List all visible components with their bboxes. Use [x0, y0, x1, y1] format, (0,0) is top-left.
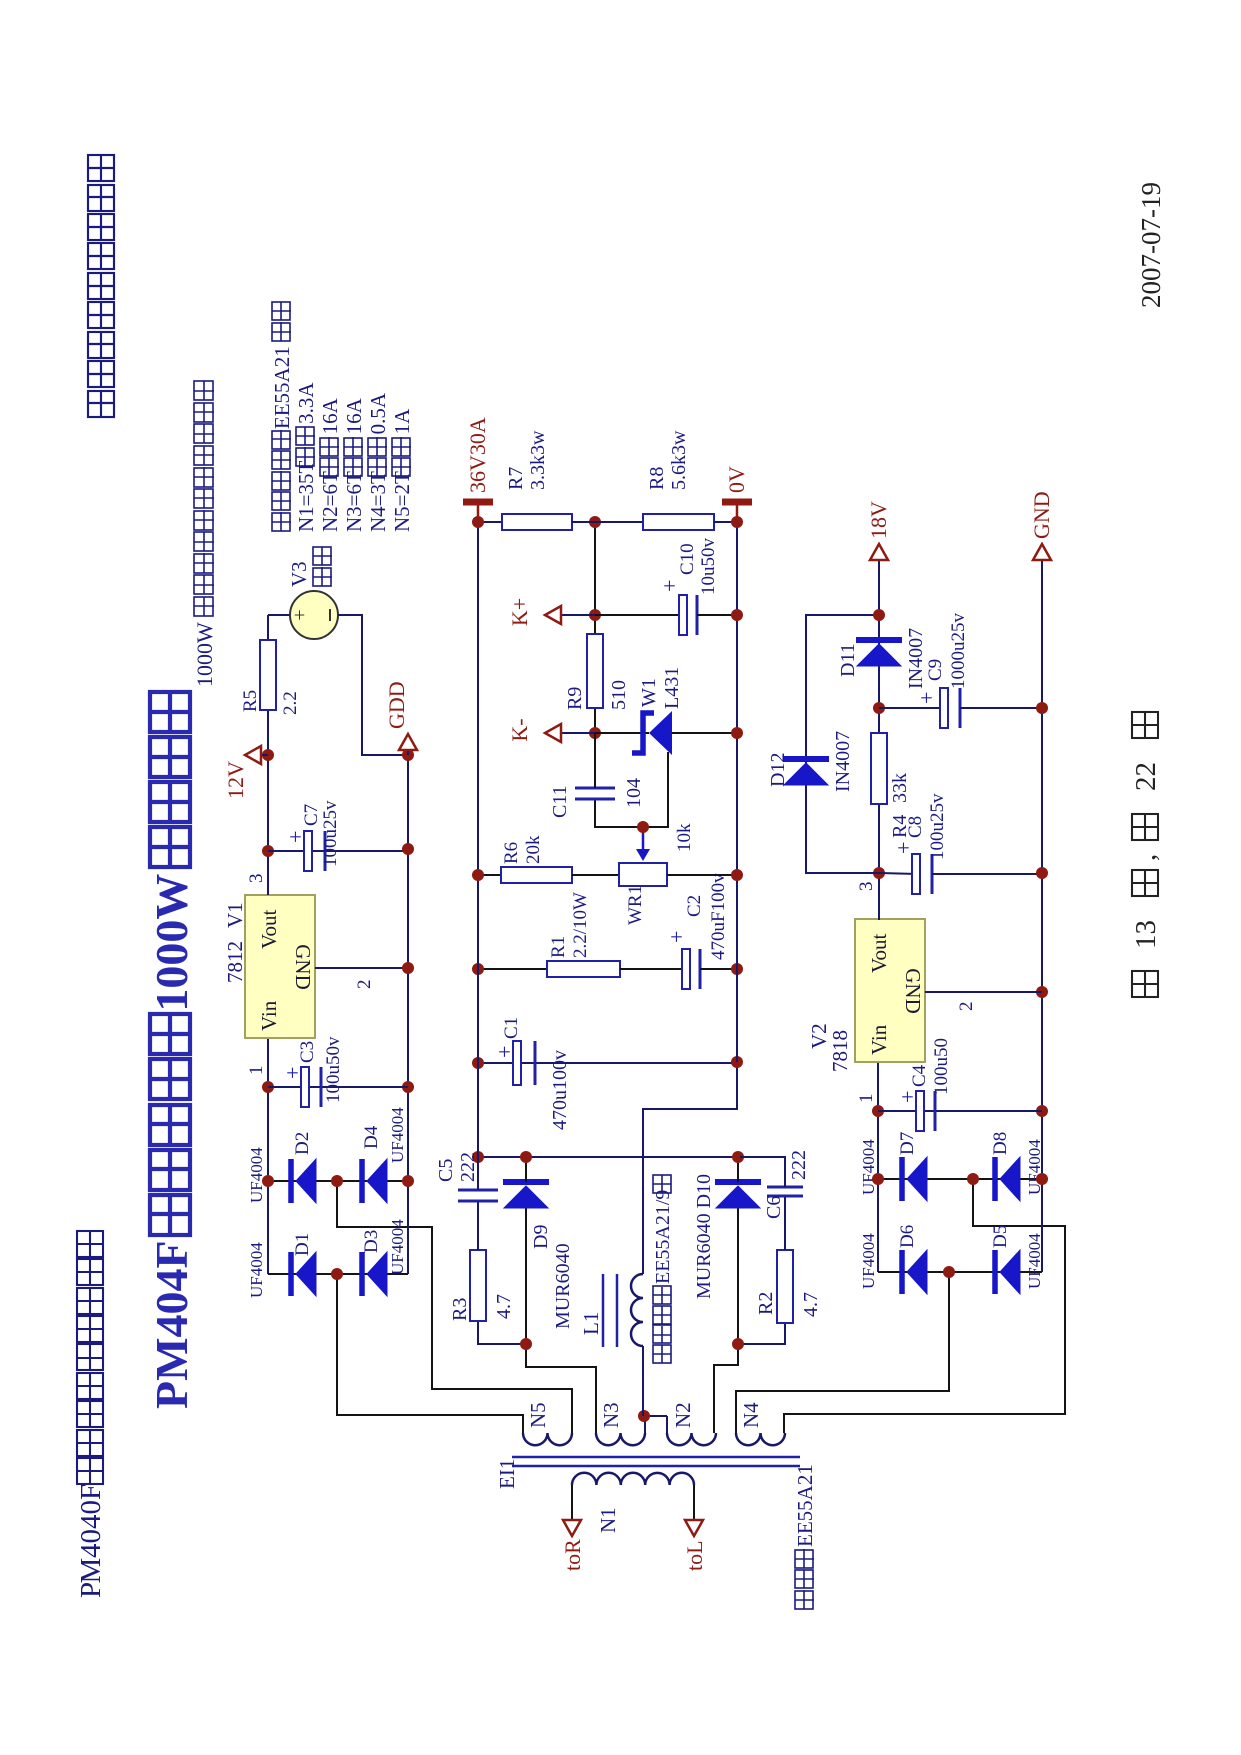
svg-text:510: 510: [608, 680, 630, 710]
snubber R2 C6 branch: [738, 1323, 785, 1344]
svg-text:C11: C11: [549, 785, 571, 818]
svg-text:104: 104: [623, 778, 645, 808]
svg-text:0: 0: [75, 1529, 107, 1544]
svg-text:C2: C2: [684, 895, 705, 917]
svg-text:10k: 10k: [674, 823, 695, 852]
svg-text:UF4004: UF4004: [859, 1139, 878, 1195]
svg-text:+: +: [914, 692, 939, 704]
svg-text:V1: V1: [223, 902, 247, 928]
svg-text:D5: D5: [990, 1225, 1011, 1248]
potentiometer WR1 wiper arrow: [642, 827, 645, 853]
svg-text:GND: GND: [901, 968, 925, 1014]
svg-text:0: 0: [192, 654, 217, 665]
resistor R3: [470, 1250, 486, 1321]
svg-text:16A: 16A: [318, 397, 342, 434]
svg-text:222: 222: [457, 1152, 479, 1182]
snubber R3 C5 branch: [478, 1321, 526, 1344]
svg-text:4.7: 4.7: [493, 1294, 515, 1319]
svg-text:IN4007: IN4007: [905, 628, 927, 689]
svg-text:D9: D9: [530, 1225, 552, 1249]
port 12V: [261, 754, 268, 756]
svg-text:D8: D8: [990, 1132, 1011, 1155]
svg-text:N5=2T: N5=2T: [390, 471, 414, 532]
wire C11 to K- node: [594, 733, 596, 788]
wire center tap link: [644, 1416, 646, 1433]
svg-text:5.6k3w: 5.6k3w: [668, 430, 690, 490]
junction bus D9: [520, 1151, 532, 1163]
wire +36V vertical bus: [478, 1156, 785, 1158]
wire 12V output rail: [267, 615, 269, 895]
port K+: [561, 614, 595, 616]
resistor R6: [478, 874, 501, 876]
svg-text:+: +: [283, 831, 308, 843]
wire R3 to C5: [477, 1201, 479, 1250]
junction C8 bottom: [1036, 867, 1048, 879]
svg-text:R7: R7: [505, 467, 527, 490]
svg-text:+: +: [664, 931, 689, 943]
svg-text:10u50v: 10u50v: [698, 538, 719, 596]
svg-text:K+: K+: [507, 598, 532, 626]
wire D7/D8 chain: [878, 1178, 1042, 1180]
svg-text:+: +: [891, 842, 916, 854]
svg-text:2: 2: [354, 980, 375, 990]
wire GND rail of 7812 section: [407, 755, 409, 1274]
svg-text:toR: toR: [560, 1539, 585, 1571]
winding N4: [736, 1433, 785, 1445]
svg-text:222: 222: [788, 1150, 810, 1180]
junction C10 bottom: [731, 609, 743, 621]
junction C1 bottom / L1: [731, 1056, 743, 1068]
svg-text:N1: N1: [596, 1507, 620, 1533]
page number: [1132, 971, 1158, 997]
wire D6/D5 chain: [878, 1271, 1042, 1273]
junction Vin rail D7: [872, 1173, 884, 1185]
capacitor C4: [878, 1110, 1042, 1112]
junction D2-D4 mid: [331, 1175, 343, 1187]
capacitor C9: [879, 707, 946, 709]
diode D11: [856, 637, 902, 643]
svg-text:R2: R2: [755, 1292, 777, 1315]
svg-text:2.2/10W: 2.2/10W: [570, 892, 591, 958]
svg-text:1000W: 1000W: [146, 874, 197, 1012]
capacitor C8: [879, 873, 918, 874]
junction D6-D5 mid: [943, 1266, 955, 1278]
junction GND V2 pin: [1036, 986, 1048, 998]
resistor R9: [587, 634, 603, 708]
svg-text:3.3A: 3.3A: [294, 382, 318, 424]
wire C5 to bus: [477, 1157, 479, 1190]
svg-text:2: 2: [956, 1002, 977, 1012]
svg-text:C9: C9: [925, 659, 946, 681]
svg-text:4.7: 4.7: [800, 1292, 822, 1317]
capacitor C5: [458, 1200, 498, 1203]
svg-text:0: 0: [75, 1500, 107, 1515]
wire V2 Vin rail: [877, 1062, 879, 1272]
wire N4 bottom to D7/D8 midpoint: [784, 1179, 1065, 1433]
svg-text:N4: N4: [739, 1402, 763, 1428]
svg-text:EE55A21: EE55A21: [270, 346, 294, 429]
port toR: [563, 1520, 581, 1536]
svg-text:C1: C1: [501, 1017, 522, 1039]
svg-text:GND: GND: [1029, 491, 1054, 539]
junction bus top: [472, 1151, 484, 1163]
svg-text:N1=35T: N1=35T: [294, 460, 318, 532]
svg-text:EE55A21/9: EE55A21/9: [652, 1190, 674, 1284]
svg-text:1000u25v: 1000u25v: [948, 613, 969, 690]
svg-text:C7: C7: [301, 804, 322, 826]
junction rail D2 top: [262, 1175, 274, 1187]
winding N1 (primary): [572, 1473, 694, 1485]
svg-text:D12: D12: [767, 753, 789, 787]
junction R1 top: [472, 963, 484, 975]
wire V2 Vout rail: [878, 561, 880, 920]
svg-text:W1: W1: [638, 678, 660, 707]
svg-text:R3: R3: [449, 1298, 471, 1321]
svg-text:4: 4: [75, 1543, 107, 1558]
transformer type label: [795, 1590, 814, 1609]
capacitor C11: [575, 798, 615, 801]
wire R1 to C2: [620, 968, 688, 970]
svg-text:3: 3: [246, 874, 267, 884]
port 0V: [736, 502, 739, 522]
fan V3 circle: [290, 591, 338, 639]
svg-text:R1: R1: [548, 936, 569, 958]
svg-text:D2: D2: [292, 1132, 313, 1155]
svg-text:D11: D11: [837, 643, 859, 677]
junction GND D8: [1036, 1173, 1048, 1185]
winding N5: [523, 1433, 572, 1445]
svg-text:WR1: WR1: [625, 885, 646, 925]
svg-text:12V: 12V: [223, 761, 248, 799]
junction bus D10: [732, 1151, 744, 1163]
capacitor C3: [268, 1086, 408, 1088]
junction R4 D11 C9: [873, 702, 885, 714]
svg-text:D1: D1: [292, 1233, 313, 1256]
svg-text:470u100v: 470u100v: [549, 1050, 571, 1130]
wire W1 ref path: [595, 752, 668, 827]
junction W1 anode: [731, 727, 743, 739]
junction wiper node: [637, 821, 649, 833]
diode D3: [359, 1252, 365, 1296]
svg-text:1: 1: [246, 1066, 267, 1076]
wire R6 to WR1: [572, 874, 619, 876]
diode D2: [288, 1159, 294, 1203]
svg-text:N3=6T: N3=6T: [342, 471, 366, 532]
capacitor C10: [595, 614, 685, 616]
svg-text:UF4004: UF4004: [859, 1233, 878, 1289]
diode D6: [899, 1250, 905, 1294]
port toL: [685, 1520, 703, 1536]
svg-text:36V30A: 36V30A: [465, 417, 490, 493]
wire N3 top to D9 anode: [526, 1208, 596, 1433]
svg-text:UF4004: UF4004: [388, 1219, 407, 1275]
resistor R1: [478, 968, 547, 970]
svg-text:+: +: [289, 609, 311, 620]
junction Vout C8: [873, 867, 885, 879]
inductor L1: [631, 1274, 643, 1346]
diode D7: [899, 1157, 905, 1201]
capacitor C2: [682, 949, 690, 989]
junction D4 bottom: [402, 1175, 414, 1187]
svg-text:L1: L1: [579, 1312, 603, 1335]
transformer note block: [272, 512, 291, 531]
junction C3 bottom: [402, 1081, 414, 1093]
svg-text:UF4004: UF4004: [247, 1242, 266, 1298]
svg-text:100u25v: 100u25v: [320, 800, 341, 867]
wire 0V rail: [736, 522, 738, 1062]
svg-text:L431: L431: [661, 667, 683, 709]
svg-text:EI1: EI1: [495, 1459, 519, 1489]
diode D10: [715, 1179, 761, 1185]
svg-text:toL: toL: [682, 1540, 707, 1571]
svg-text:GND: GND: [291, 944, 315, 990]
junction 36V port: [472, 516, 484, 528]
wire N2 bottom to D10 anode: [714, 1208, 738, 1433]
svg-text:2.2: 2.2: [280, 691, 301, 715]
wire N1 bottom to toL: [693, 1485, 695, 1519]
svg-text:UF4004: UF4004: [247, 1147, 266, 1203]
potentiometer WR1: [619, 863, 667, 886]
svg-text:PM404F: PM404F: [146, 1240, 197, 1409]
wire D10 cathode to bus: [737, 1157, 739, 1182]
svg-text:EE55A21: EE55A21: [793, 1464, 817, 1547]
wire N5 bottom to D2/D4 midpoint: [337, 1181, 572, 1433]
wire R7 to R8: [572, 521, 643, 523]
svg-text:,: ,: [1130, 854, 1162, 861]
svg-text:C6: C6: [763, 1196, 785, 1219]
svg-text:470uF100v: 470uF100v: [708, 873, 729, 960]
svg-text:IN4007: IN4007: [832, 731, 854, 792]
wire C6 to bus: [740, 1157, 785, 1187]
svg-text:D4: D4: [361, 1125, 382, 1149]
svg-text:13: 13: [1130, 920, 1162, 949]
svg-text:D3: D3: [361, 1230, 382, 1253]
diode D12 branch: [806, 615, 879, 873]
junction snubber D9 tap: [520, 1338, 532, 1350]
svg-text:K-: K-: [507, 718, 532, 741]
svg-text:33k: 33k: [889, 773, 911, 803]
svg-text:W: W: [192, 622, 217, 643]
wire +36V rail: [477, 522, 479, 1157]
svg-text:M: M: [75, 1558, 107, 1584]
wire V1 GND pin: [315, 967, 408, 969]
svg-text:MUR6040 D10: MUR6040 D10: [693, 1174, 715, 1299]
svg-text:0: 0: [192, 665, 217, 676]
svg-text:0: 0: [192, 643, 217, 654]
diode D8: [992, 1157, 998, 1201]
svg-text:1: 1: [856, 1094, 877, 1104]
junction C7 top: [262, 845, 274, 857]
resistor R4: [871, 733, 887, 804]
wire R5 to fan V3: [268, 614, 290, 616]
diode D9: [503, 1179, 549, 1185]
wire N5 top to D1/D3 midpoint: [337, 1274, 523, 1433]
svg-text:R4: R4: [889, 815, 911, 838]
junction K- node: [589, 727, 601, 739]
svg-text:100u50: 100u50: [931, 1038, 952, 1095]
junction WR1 bottom: [731, 869, 743, 881]
junction 12V port: [262, 749, 274, 761]
diode D5: [992, 1250, 998, 1294]
svg-text:D7: D7: [897, 1132, 918, 1155]
port GND: [1033, 544, 1051, 560]
svg-text:0.5A: 0.5A: [366, 392, 390, 434]
svg-text:C3: C3: [297, 1041, 318, 1063]
wire WR1 to 0V: [667, 874, 737, 876]
junction Vin rail C4: [872, 1105, 884, 1117]
svg-text:100u25v: 100u25v: [927, 793, 948, 860]
svg-text:F: F: [75, 1484, 107, 1500]
capacitor C1: [478, 1062, 737, 1064]
junction rail C3 top: [262, 1081, 274, 1093]
wire K mid rail: [594, 522, 596, 733]
svg-text:Vout: Vout: [257, 910, 281, 949]
junction K+ node: [589, 609, 601, 621]
junction V1 GND: [402, 962, 414, 974]
svg-text:C5: C5: [435, 1159, 457, 1182]
svg-text:N3: N3: [599, 1402, 623, 1428]
svg-text:MUR6040: MUR6040: [552, 1243, 574, 1329]
junction C1 top: [472, 1057, 484, 1069]
svg-text:7812: 7812: [223, 941, 247, 983]
winding N3: [596, 1433, 645, 1445]
wire R2 to C6: [784, 1196, 786, 1250]
inductor L1 core: [602, 1274, 605, 1347]
svg-text:Vin: Vin: [257, 1000, 281, 1031]
svg-text:R9: R9: [564, 687, 586, 710]
wire center tap to L1: [642, 1346, 644, 1416]
resistor R5: [260, 640, 276, 710]
svg-text:3.3k3w: 3.3k3w: [527, 430, 549, 490]
svg-text:UF4004: UF4004: [388, 1107, 407, 1163]
svg-text:18V: 18V: [866, 501, 891, 539]
svg-text:GDD: GDD: [384, 681, 409, 729]
svg-text:C10: C10: [677, 543, 698, 575]
junction C2 bottom: [731, 963, 743, 975]
svg-text:+: +: [657, 580, 682, 592]
wire V3 return to GDD: [338, 615, 408, 755]
svg-text:R6: R6: [501, 842, 522, 864]
junction snubber D10 tap: [732, 1338, 744, 1350]
junction R6 top: [472, 869, 484, 881]
wire V2 GND pin: [925, 991, 1042, 993]
svg-text:16A: 16A: [342, 397, 366, 434]
svg-text:D6: D6: [897, 1225, 918, 1248]
port 18V: [870, 544, 888, 560]
svg-text:+: +: [492, 1046, 517, 1058]
junction 0V port: [731, 516, 743, 528]
wire N4 top to D6/D5 midpoint: [736, 1272, 949, 1433]
resistor R8: [643, 514, 714, 530]
svg-text:20k: 20k: [523, 835, 544, 864]
svg-text:7818: 7818: [828, 1030, 852, 1072]
shunt regulator W1 L431: [595, 732, 649, 734]
svg-text:C4: C4: [909, 1064, 930, 1087]
svg-text:4: 4: [75, 1514, 107, 1529]
wire L1 to 0V rail: [643, 1062, 737, 1274]
wire D1/D3 chain: [268, 1273, 408, 1275]
wire D2/D4 chain: [268, 1180, 408, 1182]
wire D9 cathode to +36V bus: [525, 1157, 527, 1182]
junction C7 bottom: [402, 843, 414, 855]
port K-: [561, 732, 595, 734]
svg-text:2007-07-19: 2007-07-19: [1136, 182, 1166, 308]
capacitor C7: [268, 850, 408, 852]
diode D4: [359, 1159, 365, 1203]
port 36V30A: [477, 502, 480, 522]
wire +12V input rail: [267, 1038, 269, 1274]
capacitor C6: [767, 1195, 803, 1198]
wire GND rail: [1041, 561, 1043, 1272]
svg-text:R8: R8: [646, 467, 668, 490]
svg-text:0V: 0V: [724, 466, 749, 493]
svg-text:3: 3: [856, 882, 877, 892]
svg-text:N2: N2: [671, 1402, 695, 1428]
wire N1 top to toR: [571, 1485, 573, 1519]
transformer EI1 core: [512, 1465, 800, 1468]
svg-text:+: +: [280, 1067, 305, 1079]
junction GDD: [402, 749, 414, 761]
winding N2: [667, 1433, 716, 1445]
svg-text:Vout: Vout: [867, 934, 891, 973]
resistor R2: [777, 1250, 793, 1323]
svg-text:N2=6T: N2=6T: [318, 471, 342, 532]
junction GND C4: [1036, 1105, 1048, 1117]
port GDD: [407, 751, 409, 755]
junction center tap: [638, 1410, 650, 1422]
junction 18V stub: [873, 609, 885, 621]
svg-text:+: +: [895, 1091, 920, 1103]
resistor R7: [478, 521, 502, 523]
svg-text:1A: 1A: [390, 408, 414, 435]
svg-text:N5: N5: [526, 1402, 550, 1428]
svg-text:N4=3T: N4=3T: [366, 471, 390, 532]
svg-text:R5: R5: [240, 690, 261, 712]
svg-text:22: 22: [1130, 762, 1162, 791]
junction D1-D3 mid: [331, 1268, 343, 1280]
svg-text:V3: V3: [287, 561, 311, 587]
regulator V1 7812 body: [245, 895, 315, 1038]
copyright text: [88, 390, 114, 417]
diode D12: [783, 756, 829, 762]
svg-text:Vin: Vin: [867, 1024, 891, 1055]
svg-text:1: 1: [192, 676, 217, 687]
svg-text:100u50v: 100u50v: [323, 1036, 344, 1103]
junction C9 bottom: [1036, 702, 1048, 714]
junction R7 R8 mid: [589, 516, 601, 528]
junction D7-D8 mid: [967, 1173, 979, 1185]
regulator V2 7818 body: [855, 919, 925, 1062]
diode D1: [288, 1252, 294, 1296]
inductor L1 value label: [653, 1345, 671, 1363]
